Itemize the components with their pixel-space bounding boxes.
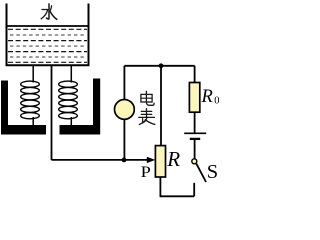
coil L2 (right heating coil) xyxy=(59,81,78,119)
wire: top horizontal xyxy=(124,65,194,67)
wire: meter branch lower xyxy=(123,119,125,160)
label 电 (meter label, top char) xyxy=(141,91,154,105)
right heater holder (black U) xyxy=(60,79,101,135)
right coil lead (bottom) xyxy=(70,117,72,126)
wire: bottom horizontal to rheostat wiper xyxy=(52,159,149,161)
meter (electric meter) circle xyxy=(115,100,135,120)
left heater holder (black U) xyxy=(1,81,46,135)
water dashed lines (black rows) xyxy=(8,29,87,62)
wire: bottom return xyxy=(160,195,195,197)
switch S pivot circle xyxy=(192,159,197,164)
resistor R0 xyxy=(189,83,199,113)
svg-text:R: R xyxy=(201,87,213,107)
rheostat R xyxy=(155,146,165,177)
node: junction dot top xyxy=(159,63,164,68)
battery short plate xyxy=(190,138,200,140)
water container (beaker walls) xyxy=(7,4,89,66)
label 表 (meter label, bottom char) xyxy=(139,109,155,125)
water surface line xyxy=(8,25,88,27)
svg-text:0: 0 xyxy=(214,96,219,107)
wire: meter branch upper xyxy=(123,66,125,100)
svg-text:S: S xyxy=(207,161,218,183)
wire: R0 to battery xyxy=(194,112,196,133)
resistor R0 branch wire top xyxy=(194,66,196,83)
label 水 xyxy=(41,4,57,20)
wire: battery to switch xyxy=(194,139,196,159)
svg-text:R: R xyxy=(166,147,180,171)
left coil lead (bottom) xyxy=(32,117,34,126)
svg-text:P: P xyxy=(141,164,151,181)
coil L1 (left heating coil) xyxy=(21,81,40,119)
wire: center lead down from container xyxy=(51,65,53,160)
water dashed lines (gray rows) xyxy=(10,35,86,57)
right coil lead (top) xyxy=(70,65,72,83)
wire: switch bottom stub xyxy=(193,183,195,197)
wire: rheostat bottom xyxy=(159,177,161,196)
node: junction dot bottom (meter branch) xyxy=(122,158,127,163)
left coil lead (top) xyxy=(32,65,34,83)
wiper arrowhead into rheostat xyxy=(147,157,155,163)
wire: middle branch (to rheostat top) xyxy=(160,66,162,146)
battery long plate xyxy=(184,132,206,134)
switch blade xyxy=(196,164,206,182)
